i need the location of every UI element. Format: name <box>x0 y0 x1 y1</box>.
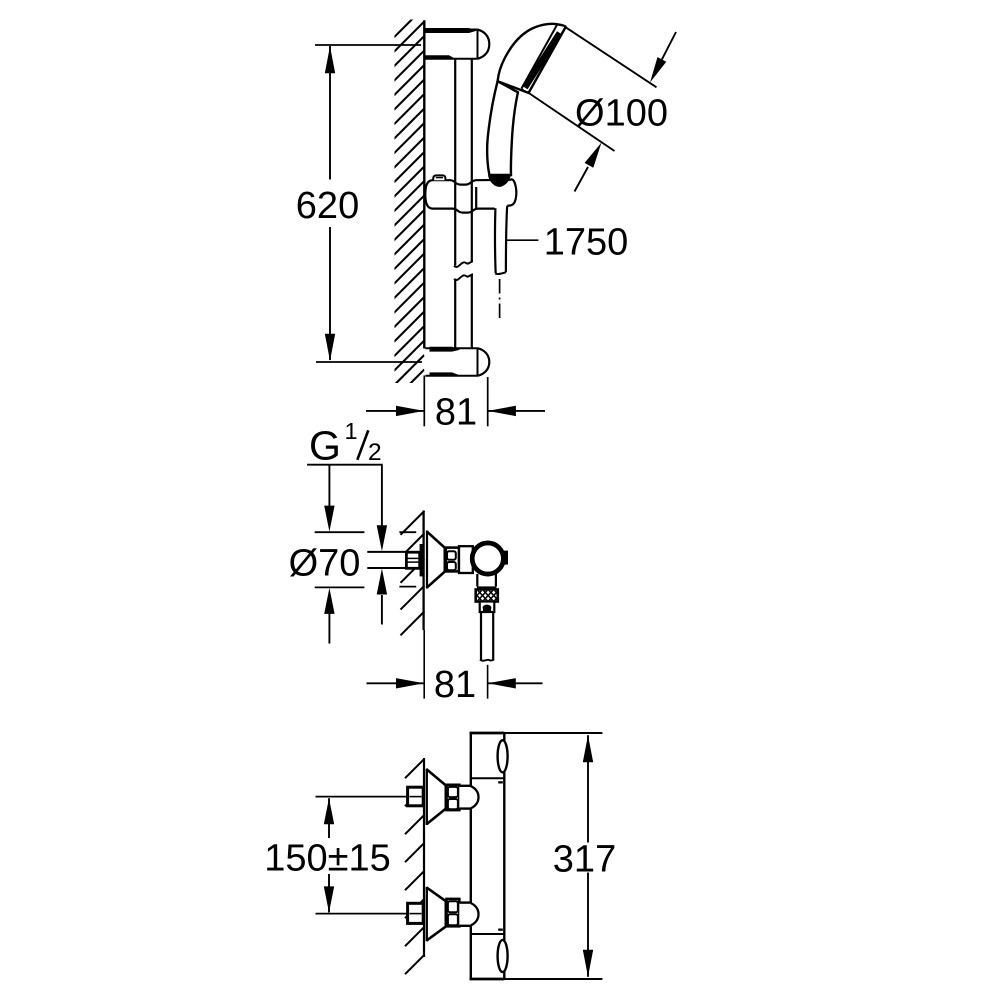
svg-text:1750: 1750 <box>544 221 629 263</box>
svg-text:317: 317 <box>553 838 616 880</box>
svg-text:Ø100: Ø100 <box>575 93 668 135</box>
svg-text:81: 81 <box>434 664 476 706</box>
svg-text:Ø70: Ø70 <box>289 543 361 585</box>
svg-text:81: 81 <box>435 391 477 433</box>
svg-text:150±15: 150±15 <box>264 838 391 880</box>
svg-text:2: 2 <box>368 439 382 466</box>
svg-text:G: G <box>309 423 341 469</box>
svg-text:1: 1 <box>345 418 358 444</box>
svg-text:620: 620 <box>296 185 359 227</box>
